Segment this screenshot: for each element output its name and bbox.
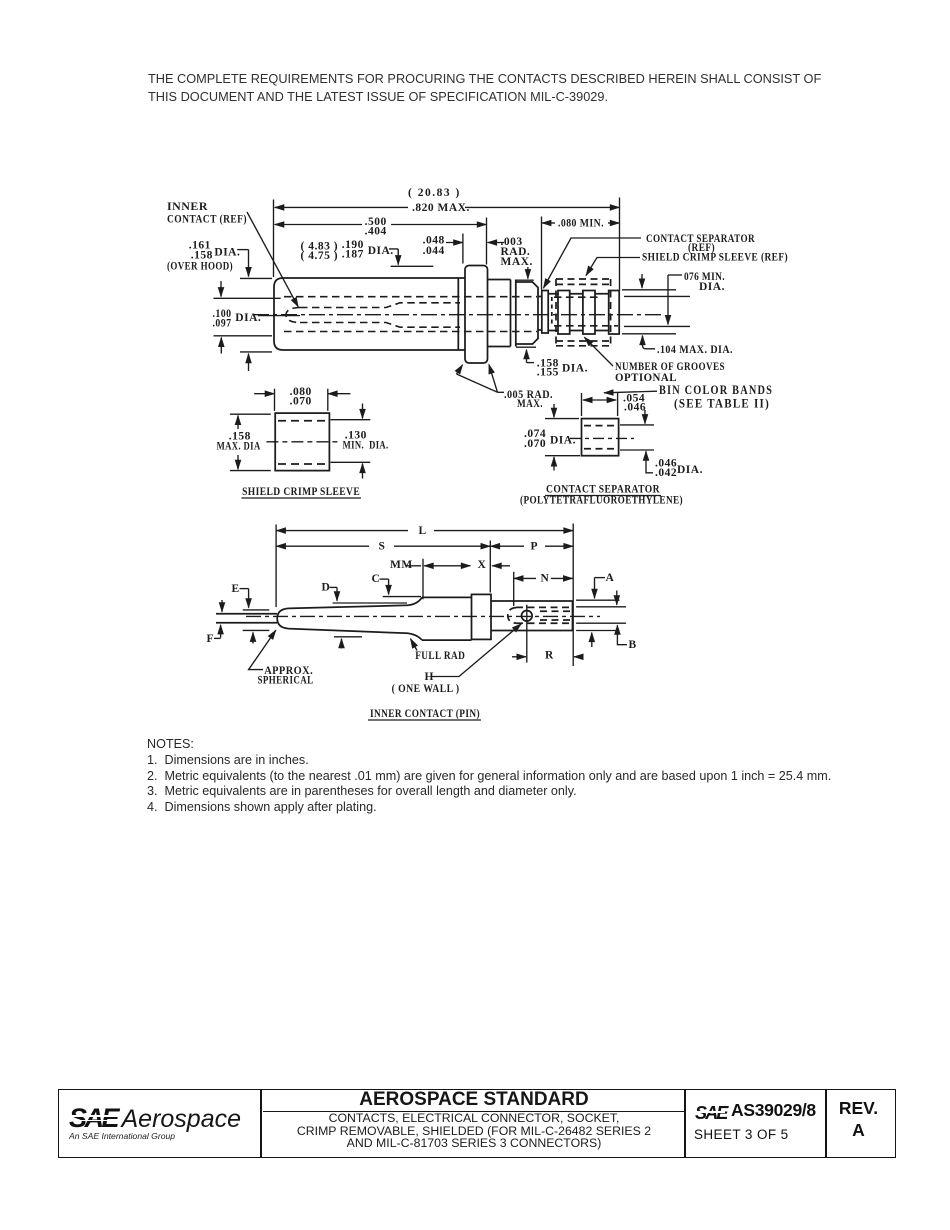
dimension .190/.187 DIA leader [389,249,433,266]
centerline top figure [253,314,662,316]
leader: bin color bands [604,391,657,393]
svg-text:.187: .187 [342,248,364,260]
nose section [488,280,539,347]
dia .076 extension lines [624,296,690,326]
dim R [512,605,584,663]
leader: contact separator (ref) [544,238,642,288]
svg-text:SHIELD CRIMP SLEEVE (REF): SHIELD CRIMP SLEEVE (REF) [642,251,788,263]
svg-text:L: L [419,525,427,537]
leader: h (one wall) [431,624,521,677]
svg-text:MAX.: MAX. [517,398,543,410]
separator bore dashed [584,426,616,449]
svg-text:(OVER HOOD): (OVER HOOD) [167,261,233,273]
svg-text:MAX.: MAX. [501,256,533,268]
dim .074/.070 DIA (separator) [545,404,580,471]
crimp pot section [491,601,573,631]
crimp barrel ring 4 [609,291,620,335]
dim .054/.046 (separator) [582,393,618,416]
leader: number of grooves [584,337,613,366]
svg-text:CONTACT (REF): CONTACT (REF) [167,214,247,226]
svg-text:(POLYTETRAFLUOROETHYLENE): (POLYTETRAFLUOROETHYLENE) [520,494,683,506]
shield crimp sleeve (ref) dashed box [556,279,611,346]
dimension .080 MIN [542,217,620,290]
dim .130 MIN DIA (sleeve) [331,404,371,479]
svg-text:.042: .042 [655,467,677,479]
svg-text:.070: .070 [290,395,312,407]
dimension .158/.155 DIA (nose) [516,347,536,362]
pin rod with spherical tip [277,605,408,633]
svg-text:C: C [372,573,381,585]
svg-text:H: H [425,671,434,683]
dim L [276,524,573,667]
svg-text:( 20.83 ): ( 20.83 ) [408,187,461,199]
svg-text:DIA.: DIA. [550,435,576,447]
centerline lower figure [246,615,600,617]
dimension .500/.404 [275,218,487,265]
svg-text:DIA.: DIA. [677,464,703,476]
crimp barrel ring 3 [583,291,595,335]
svg-text:.104 MAX. DIA.: .104 MAX. DIA. [657,344,733,356]
dimension .100/.097 DIA [214,281,301,354]
inner contact pin hidden outline [286,303,460,327]
SAE Aerospace logo [69,1103,259,1141]
svg-text:OPTIONAL: OPTIONAL [615,372,677,384]
dim D [330,587,408,648]
svg-text:.097: .097 [213,318,232,330]
leader: shield crimp sleeve (ref) [586,258,640,276]
dim F [214,600,222,638]
svg-text:F: F [207,633,215,645]
dim .080/.070 (sleeve) [254,389,350,411]
svg-text:.820 MAX.: .820 MAX. [412,202,470,214]
svg-text:.044: .044 [423,245,445,257]
dim MM [406,559,470,600]
dim S [276,541,490,593]
leader: inner contact (ref) [247,212,298,307]
label: bin color bands [659,383,773,410]
leader: full rad [411,639,418,651]
svg-text:R: R [545,650,554,662]
dim .046/.042 DIA (separator) [620,410,654,473]
svg-text:B: B [629,639,637,651]
dim B [576,591,627,645]
svg-text:S: S [379,541,386,553]
svg-text:INNER: INNER [167,201,208,213]
crimp barrel ring 1 [542,291,548,334]
svg-text:DIA.: DIA. [368,245,394,257]
crimp barrel ring 2 [558,291,570,335]
dim P [491,545,573,547]
dim E [240,589,270,644]
svg-text:.404: .404 [365,225,387,237]
svg-text:FULL RAD: FULL RAD [415,650,465,662]
bore hidden lines (dashed) [284,297,618,332]
svg-text:DIA.: DIA. [235,312,261,324]
dimension .076 MIN DIA bracket [668,275,682,325]
svg-text:A: A [606,572,615,584]
dimension .003 RAD MAX arrow [527,267,529,279]
svg-text:.070: .070 [524,438,546,450]
full rad fillets [408,597,422,640]
dim N [514,572,573,606]
svg-text:D: D [322,581,331,593]
svg-text:SPHERICAL: SPHERICAL [258,674,314,686]
leader: approx spherical [249,630,276,669]
wire leads [216,614,277,623]
hidden lines in barrel [554,297,618,326]
dim .158 MAX DIA (sleeve) [230,414,271,470]
dimension .820 MAX with (20.83) [274,198,620,291]
inspection hole [522,611,533,622]
dim A [576,578,619,647]
svg-text:.080 MIN.: .080 MIN. [558,218,604,230]
dimension .161/.158 DIA (over hood) [237,250,272,371]
svg-text:SHIELD CRIMP SLEEVE: SHIELD CRIMP SLEEVE [242,486,360,498]
header paragraph [148,70,868,106]
svg-text:E: E [232,583,240,595]
svg-text:N: N [541,572,550,584]
nose tip top extension [515,279,533,281]
svg-text:DIA.: DIA. [699,281,725,293]
svg-text:(SEE TABLE II): (SEE TABLE II) [674,396,770,410]
barrel section [422,597,472,640]
dimension .048/.044 [446,234,504,264]
separator centerline [570,437,634,439]
dim X [492,565,510,567]
barrel groove surfaces [548,294,609,331]
svg-text:.158: .158 [191,249,213,261]
svg-text:MIN. DIA.: MIN. DIA. [343,440,389,452]
svg-text:DIA.: DIA. [562,363,588,375]
svg-text:X: X [478,559,487,571]
detail: shield crimp sleeve box [275,413,329,471]
square flange (lower) [472,594,492,639]
footer title block [58,1089,896,1158]
dimension .104 MAX DIA arrows [642,274,655,349]
svg-text:.155: .155 [537,366,559,378]
dia .104 extension lines [622,290,676,334]
svg-text:MAX. DIA: MAX. DIA [217,441,261,453]
hood body outline [274,278,465,350]
nose tip stub [538,297,542,331]
svg-text:( 4.75 ): ( 4.75 ) [301,250,339,262]
svg-text:MM: MM [390,559,413,571]
svg-text:P: P [531,541,539,553]
svg-text:INNER CONTACT (PIN): INNER CONTACT (PIN) [370,708,480,720]
dim C [380,579,422,597]
svg-text:DIA.: DIA. [214,246,240,258]
sleeve bore dashed [278,421,327,464]
notes [147,737,907,816]
hidden bore dashed (lower) [508,607,572,623]
svg-text:BIN COLOR BANDS: BIN COLOR BANDS [659,383,773,397]
svg-text:.046: .046 [624,402,646,414]
leader: .005 rad max (two arrows) [457,364,505,392]
svg-text:( ONE WALL ): ( ONE WALL ) [392,683,460,695]
contact separator dashed edge [551,297,553,324]
detail: contact separator box [582,419,619,456]
flange [465,266,488,364]
sleeve centerline [266,441,340,443]
